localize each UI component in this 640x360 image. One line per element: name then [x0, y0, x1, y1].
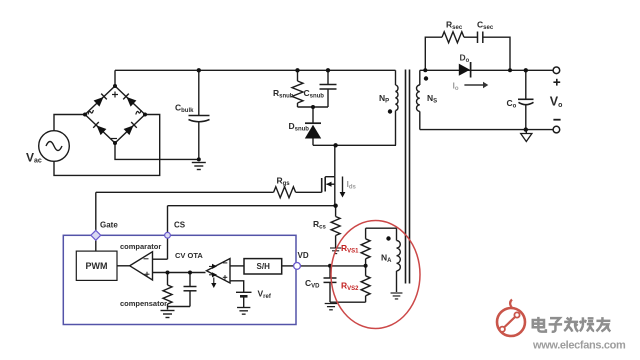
svg-text:compensator: compensator [120, 299, 167, 308]
svg-text:Do: Do [460, 53, 470, 65]
svg-text:RVS2: RVS2 [341, 281, 359, 293]
svg-text:NS: NS [427, 93, 437, 105]
svg-text:Rsec: Rsec [446, 20, 463, 32]
svg-text:Rgs: Rgs [277, 176, 291, 188]
svg-text:Ids: Ids [347, 179, 357, 191]
svg-text:Rsnub: Rsnub [273, 88, 294, 100]
svg-text:Co: Co [507, 98, 517, 110]
svg-text:NP: NP [379, 93, 389, 105]
svg-text:Rcs: Rcs [313, 219, 326, 231]
svg-text:CVD: CVD [305, 278, 320, 290]
svg-text:RVS1: RVS1 [341, 243, 359, 255]
svg-text:VD: VD [298, 251, 309, 260]
svg-text:Io: Io [453, 81, 459, 93]
svg-text:S/H: S/H [257, 262, 271, 271]
svg-text:CV OTA: CV OTA [175, 251, 203, 260]
svg-text:Gate: Gate [100, 221, 118, 230]
svg-text:PWM: PWM [86, 261, 108, 271]
svg-text:CS: CS [174, 221, 186, 230]
svg-text:www.elecfans.com: www.elecfans.com [532, 340, 626, 352]
svg-text:NA: NA [381, 253, 392, 265]
svg-text:Cbulk: Cbulk [175, 103, 194, 115]
svg-text:Vref: Vref [258, 289, 272, 301]
svg-text:Vo: Vo [550, 95, 563, 110]
svg-text:Csec: Csec [477, 20, 494, 32]
svg-text:comparator: comparator [120, 242, 161, 251]
